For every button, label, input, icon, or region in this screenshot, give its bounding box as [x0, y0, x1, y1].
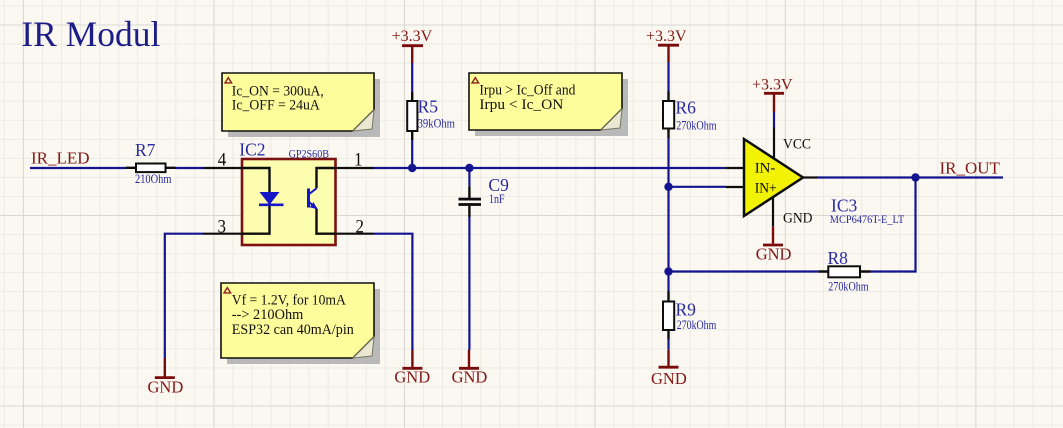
- svg-text:Vf = 1.2V, for 10mA: Vf = 1.2V, for 10mA: [232, 293, 346, 309]
- svg-text:GND: GND: [783, 211, 813, 227]
- ground pin3: [148, 358, 184, 397]
- wire R8 to junction: [669, 270, 819, 272]
- wire C9 to GND: [468, 217, 470, 350]
- wire +3.3V to R5: [411, 63, 413, 92]
- svg-text:270kOhm: 270kOhm: [676, 118, 717, 132]
- svg-text:MCP6476T-E_LT: MCP6476T-E_LT: [830, 214, 904, 226]
- note N2 shadow: [475, 79, 628, 136]
- svg-text:ESP32 can 40mA/pin: ESP32 can 40mA/pin: [232, 322, 354, 338]
- pin 3: [203, 233, 242, 235]
- svg-text:Irpu < Ic_ON: Irpu < Ic_ON: [479, 97, 563, 113]
- svg-text:IR_LED: IR_LED: [31, 149, 90, 168]
- svg-text:GND: GND: [394, 368, 430, 387]
- svg-text:+3.3V: +3.3V: [752, 77, 793, 94]
- pin 4: [203, 167, 242, 169]
- svg-text:VCC: VCC: [783, 136, 811, 152]
- svg-text:IR_OUT: IR_OUT: [940, 159, 1001, 178]
- svg-text:GP2S60B: GP2S60B: [289, 148, 329, 160]
- svg-text:2: 2: [356, 217, 365, 237]
- junction R5/main: [408, 164, 416, 172]
- resistor R9: [663, 291, 674, 340]
- note N1 fold: [353, 110, 374, 131]
- wire R5 to main: [411, 140, 413, 168]
- wire +3.3V to VCC pin: [773, 112, 775, 128]
- wire pin1 to IN- (main): [374, 167, 726, 169]
- svg-text:+3.3V: +3.3V: [646, 28, 687, 45]
- svg-text:3: 3: [218, 217, 227, 237]
- svg-text:+3.3V: +3.3V: [392, 28, 433, 45]
- svg-text:GND: GND: [148, 378, 184, 397]
- capacitor C9: [459, 186, 482, 217]
- power port +3.3V (VCC): [752, 77, 793, 113]
- svg-text:IC3: IC3: [831, 196, 858, 216]
- note N3 marker: [224, 288, 231, 293]
- IC2 LED diode: [259, 193, 284, 205]
- ground pin2: [394, 350, 430, 387]
- resistor R8: [818, 266, 870, 277]
- pin 2: [336, 233, 375, 235]
- wire R9 to GND: [667, 340, 669, 350]
- wire IN+ branch: [669, 186, 727, 188]
- ground R9: [651, 350, 687, 388]
- junction IN+ branch: [664, 183, 672, 191]
- wire op-amp output: [818, 176, 1004, 178]
- svg-text:R9: R9: [676, 299, 697, 319]
- svg-text:Ic_OFF = 24uA: Ic_OFF = 24uA: [232, 98, 320, 114]
- resistor R6: [663, 92, 674, 139]
- svg-text:1: 1: [354, 150, 363, 170]
- svg-text:270kOhm: 270kOhm: [677, 318, 717, 332]
- pin 1: [336, 167, 375, 169]
- junction R8 branch: [664, 267, 672, 275]
- note N1 shadow: [228, 79, 380, 137]
- wire R7 to pin4: [176, 167, 204, 169]
- resistor R7: [126, 164, 176, 173]
- wire C9 top: [468, 168, 470, 186]
- wire pin3 to left: [165, 234, 203, 358]
- svg-text:IR Modul: IR Modul: [21, 14, 160, 54]
- power port +3.3V (R5): [392, 28, 433, 63]
- IC2 internal LED wiring: [242, 168, 270, 234]
- ground op-amp: [756, 226, 792, 263]
- ground C9: [452, 350, 488, 387]
- note N3 fold: [353, 337, 374, 358]
- note N2 fold: [601, 109, 622, 130]
- wire R6 down to R9 junctions: [667, 138, 669, 291]
- power port +3.3V (R6): [646, 28, 687, 62]
- svg-text:R8: R8: [828, 248, 849, 268]
- junction output/R8: [911, 173, 919, 181]
- op-amp IC3: [726, 128, 818, 227]
- note N2 body: [469, 73, 622, 130]
- svg-text:IN-: IN-: [755, 161, 776, 177]
- resistor R5: [407, 92, 417, 140]
- svg-text:GND: GND: [756, 245, 792, 264]
- svg-text:--> 210Ohm: --> 210Ohm: [232, 307, 304, 323]
- note N3 shadow: [227, 289, 380, 364]
- wire output down to R8: [871, 178, 916, 272]
- svg-text:270kOhm: 270kOhm: [828, 280, 868, 294]
- svg-text:R7: R7: [135, 140, 156, 160]
- wire IR_LED to R7: [30, 167, 126, 169]
- svg-text:R5: R5: [418, 97, 439, 117]
- svg-text:4: 4: [218, 150, 227, 170]
- note N2 marker: [472, 78, 479, 83]
- wire +3.3V to R6: [667, 62, 669, 92]
- junction C9/main: [465, 164, 473, 172]
- note N1 marker: [225, 78, 232, 83]
- svg-text:IN+: IN+: [755, 181, 777, 197]
- svg-text:39kOhm: 39kOhm: [418, 116, 455, 130]
- svg-text:210Ohm: 210Ohm: [135, 172, 172, 186]
- svg-text:IC2: IC2: [239, 140, 265, 160]
- svg-text:GND: GND: [452, 368, 488, 387]
- IC2 internal transistor wiring: [317, 168, 336, 234]
- note N1 body: [222, 73, 374, 131]
- svg-text:1nF: 1nF: [489, 192, 505, 206]
- wire pin2 to GND: [374, 234, 412, 350]
- svg-text:R6: R6: [676, 98, 697, 118]
- IC2 phototransistor: [309, 188, 317, 208]
- optocoupler IC2: [242, 159, 336, 245]
- svg-text:GND: GND: [651, 369, 687, 388]
- note N3 body: [221, 283, 374, 358]
